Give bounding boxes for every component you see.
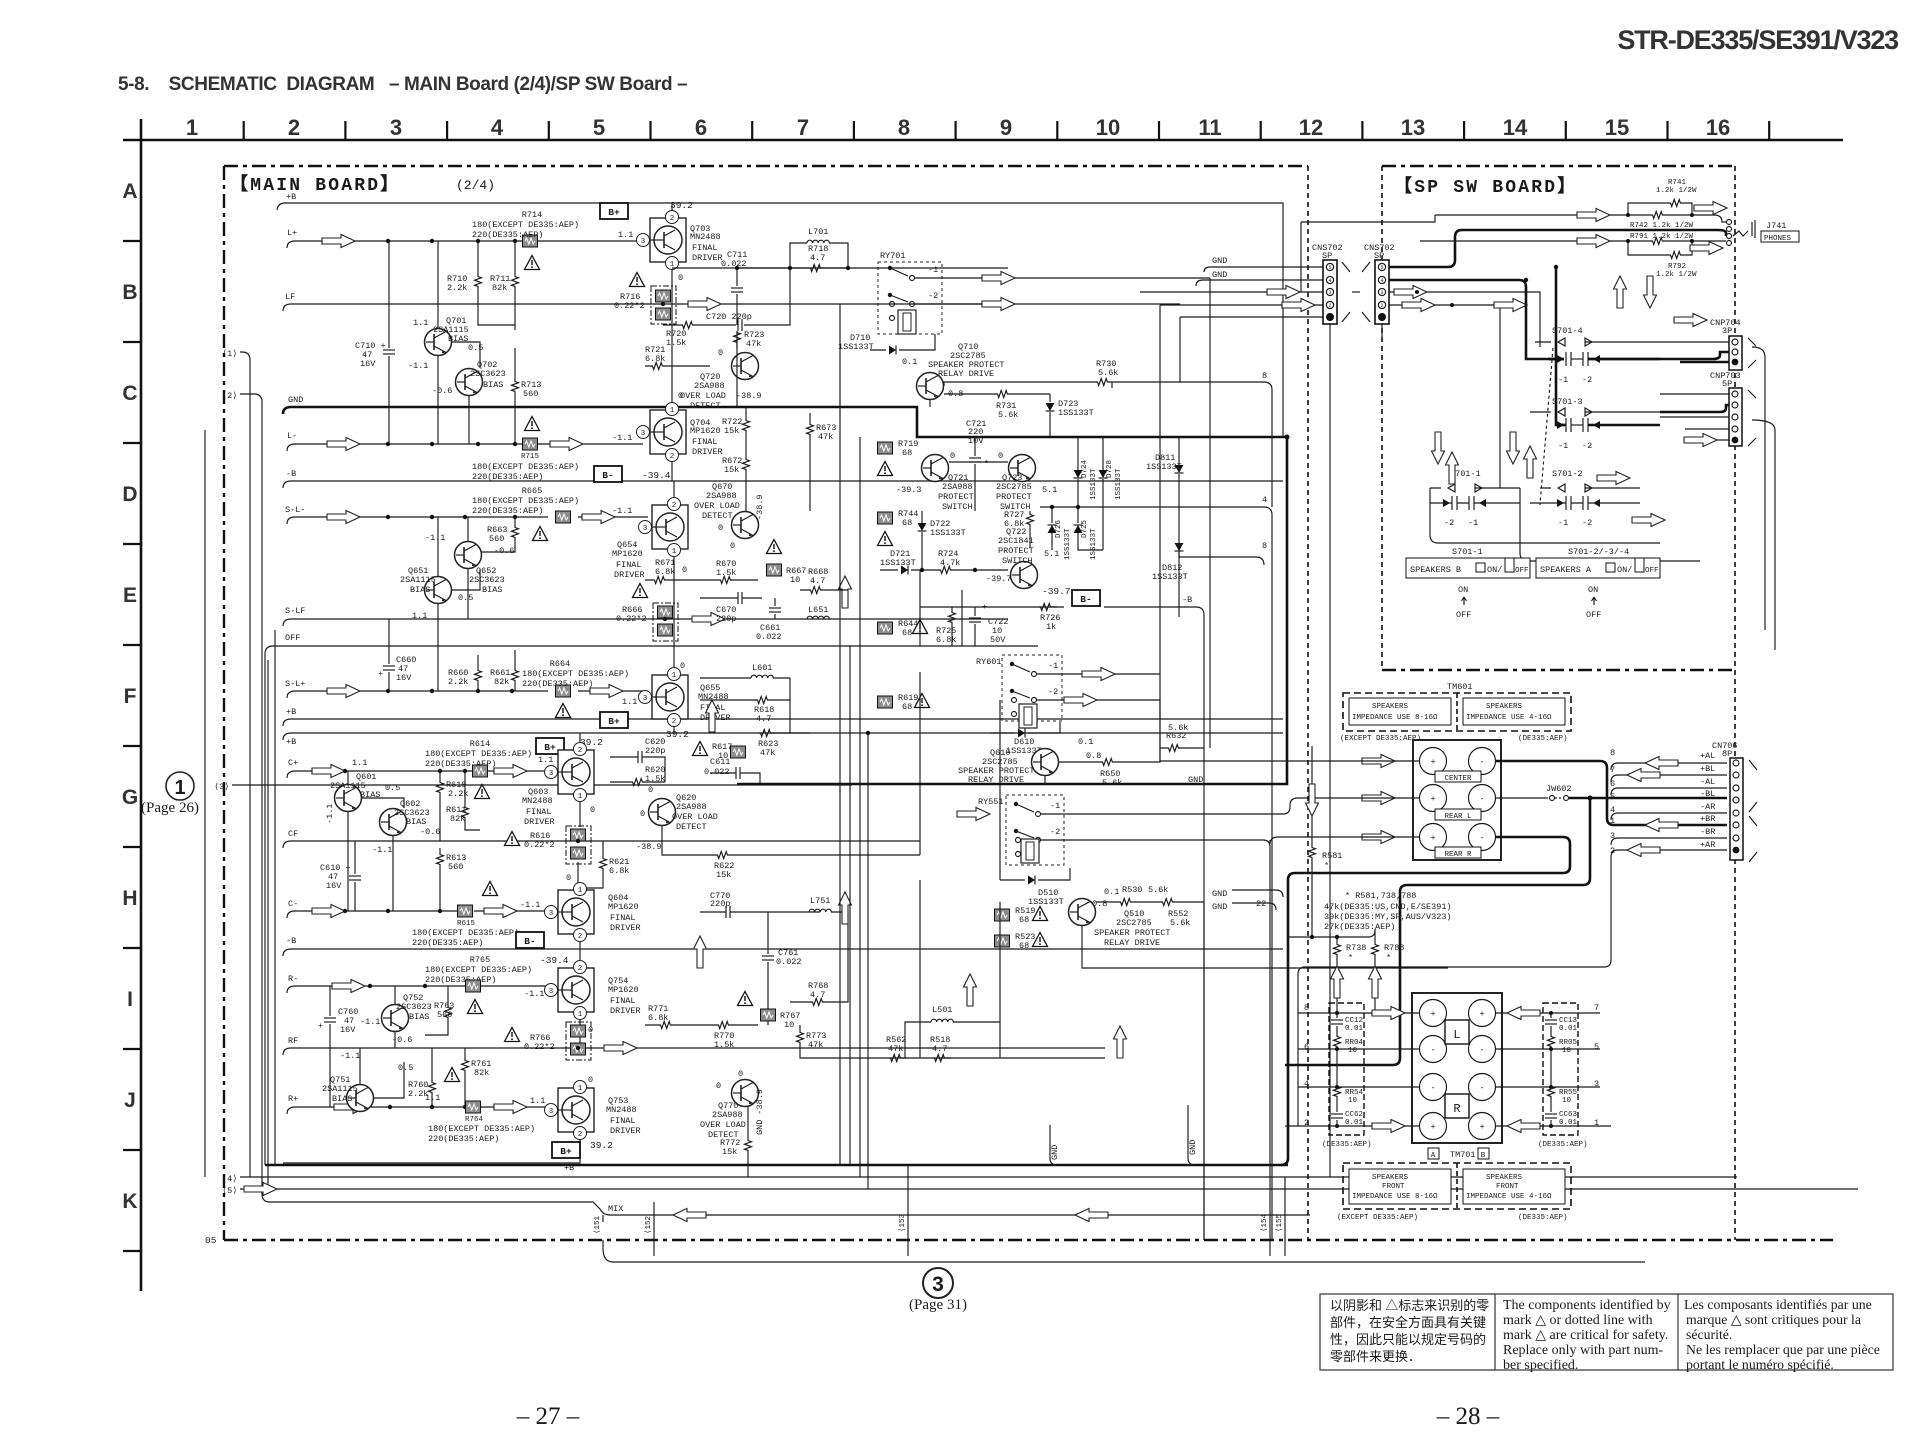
arrow phones B2 (1690, 242, 1723, 255)
wire front rows right (1496, 1012, 1600, 1014)
wire to CNS702 pin3 (1140, 291, 1323, 293)
transistor Q721 protect switch (922, 455, 949, 482)
svg-text:GND: GND (288, 395, 303, 405)
svg-text:DRIVER: DRIVER (610, 923, 641, 933)
svg-text:1: 1 (174, 777, 185, 799)
capacitor C611 (736, 767, 740, 779)
svg-text:68: 68 (902, 702, 912, 712)
svg-text:560: 560 (523, 389, 538, 399)
node L- junctions (386, 442, 517, 446)
svg-text:【SP SW BOARD】: 【SP SW BOARD】 (1394, 176, 1577, 198)
svg-text:OVER LOAD: OVER LOAD (680, 391, 726, 401)
svg-text:MP1620: MP1620 (608, 985, 639, 995)
svg-text:82k: 82k (450, 814, 465, 824)
resistor R623 (759, 730, 777, 737)
arrow RY701 out2 (982, 298, 1015, 311)
svg-text:R581: R581 (1322, 851, 1342, 861)
svg-text:4.7: 4.7 (810, 253, 825, 263)
svg-text:GND: GND (1050, 1145, 1060, 1160)
wire rear feeds (1160, 674, 1419, 761)
svg-text:L501: L501 (932, 1005, 952, 1015)
svg-text:9: 9 (1000, 115, 1012, 140)
svg-text:TM701: TM701 (1450, 1150, 1476, 1160)
resistor R716 fusible pair (651, 286, 676, 324)
svg-text:S-L-: S-L- (285, 505, 305, 515)
svg-text:-B: -B (286, 936, 296, 946)
wire right col a (1752, 347, 1765, 630)
arrow R+ mid (494, 1101, 527, 1114)
svg-text:47k: 47k (808, 1040, 823, 1050)
footer french text (1684, 1297, 1880, 1372)
svg-text:-0.6: -0.6 (420, 827, 440, 837)
svg-text:0.5: 0.5 (398, 1063, 413, 1073)
capacitor C620 (638, 751, 642, 763)
svg-text:GND: GND (1188, 1140, 1198, 1155)
svg-text:10V: 10V (968, 436, 984, 446)
svg-text:0: 0 (680, 661, 685, 671)
arrow front d (1507, 1120, 1540, 1133)
main board border left (223, 166, 225, 1240)
wire mid vertical h (999, 700, 1001, 880)
diode D724 (1074, 470, 1083, 478)
warn triangle R523 (1033, 933, 1048, 947)
resistor R610 (437, 781, 444, 799)
svg-text:S701-1: S701-1 (1452, 547, 1483, 557)
arrow up mid4 (964, 974, 977, 1006)
label B box (1478, 1148, 1489, 1159)
wire -BL thick (1569, 797, 1727, 800)
arrow cnp704 (1674, 314, 1707, 327)
resistor R726 (1039, 604, 1057, 611)
svg-text:2SC2785: 2SC2785 (996, 482, 1032, 492)
svg-text:D724: D724 (1081, 459, 1089, 478)
wire sp feed 2 (1389, 304, 1412, 306)
wire mid right vertical3 (1209, 278, 1211, 748)
wire Q754 collector (579, 949, 581, 960)
svg-text:-0.6: -0.6 (494, 546, 514, 556)
svg-text:-39.7: -39.7 (1042, 586, 1071, 597)
wire mid vertical c (859, 437, 861, 1177)
svg-text:R738: R738 (1346, 943, 1366, 953)
svg-text:性，因此只能以规定号码的: 性，因此只能以规定号码的 (1330, 1332, 1486, 1347)
transistor Q751 bias (347, 1085, 374, 1112)
svg-text:JW602: JW602 (1546, 784, 1572, 794)
node R- junctions (368, 984, 427, 988)
wire Q754 emitter (579, 1020, 581, 1048)
transistor Q701 bias (425, 329, 452, 356)
svg-text:220(DE335:AEP): 220(DE335:AEP) (472, 472, 543, 482)
svg-text:+: + (1430, 833, 1435, 843)
svg-text:15k: 15k (724, 426, 739, 436)
svg-text:R664: R664 (550, 659, 570, 669)
svg-text:10: 10 (1348, 1097, 1358, 1105)
wire Q721-Q723 (949, 461, 1008, 463)
jack J741 (1727, 220, 1732, 246)
dashed comp box front left (1329, 1003, 1364, 1135)
svg-text:FINAL: FINAL (526, 807, 552, 817)
svg-text:OFF: OFF (1456, 610, 1471, 620)
svg-text:SPEAKERS: SPEAKERS (1486, 1174, 1523, 1182)
svg-text:0.01: 0.01 (1345, 1119, 1364, 1127)
svg-text:-1.1: -1.1 (372, 845, 392, 855)
svg-text:RR54: RR54 (1345, 1089, 1364, 1097)
wire to CNS702 pin5 (1204, 267, 1323, 272)
svg-text:5-8. SCHEMATIC DIAGRAM –: 5-8. SCHEMATIC DIAGRAM – MAIN Board (2/4… (118, 74, 687, 95)
svg-text:RR04: RR04 (1345, 1039, 1364, 1047)
svg-text:50V: 50V (990, 635, 1006, 645)
wire from chevron 2 (240, 394, 600, 1209)
svg-text:Ne les remplacer que par une p: Ne les remplacer que par une pièce (1686, 1342, 1880, 1357)
transistor Q770 overload detect (732, 1080, 759, 1107)
svg-text:6.8k: 6.8k (936, 635, 956, 645)
svg-text:0.22*2: 0.22*2 (614, 301, 645, 311)
svg-text:RR55: RR55 (1559, 1089, 1578, 1097)
svg-text:S701-2: S701-2 (1552, 469, 1583, 479)
svg-text:R530: R530 (1122, 885, 1142, 895)
resistor R660 (475, 669, 482, 687)
svg-text:SPEAKERS: SPEAKERS (1372, 703, 1409, 711)
wire center minus thick (1496, 761, 1727, 825)
svg-text:sécurité.: sécurité. (1686, 1327, 1732, 1342)
resistor R665 fusible (556, 511, 571, 523)
svg-text:S701-3: S701-3 (1552, 397, 1583, 407)
arrow cn706 c (1645, 819, 1678, 832)
label B+ box SL (600, 712, 628, 728)
arrow cns3 (1267, 286, 1300, 299)
svg-text:MP1620: MP1620 (690, 426, 721, 436)
relay RY701 coil (898, 310, 916, 334)
svg-text:11: 11 (1198, 115, 1221, 140)
capacitor C770 (726, 906, 730, 918)
arrow sw down1 (1432, 432, 1445, 464)
resistor R663 (512, 526, 519, 544)
resistor R673 (807, 423, 814, 441)
relay RY601 coil (1019, 704, 1037, 728)
transistor Q510 relay drive (1069, 899, 1096, 926)
svg-text:220(DE335:AEP): 220(DE335:AEP) (472, 230, 543, 240)
arrow sp feed3 (1394, 286, 1427, 299)
svg-text:-1: -1 (928, 265, 938, 275)
svg-text:I: I (127, 988, 133, 1011)
svg-text:PROTECT: PROTECT (998, 546, 1034, 556)
wire cnp704 rows (1660, 341, 1729, 343)
svg-text:SPEAKER PROTECT: SPEAKER PROTECT (1094, 928, 1171, 938)
transistor Q710 relay drive (917, 373, 944, 400)
svg-text:1: 1 (578, 1085, 583, 1093)
board bottom border (224, 1239, 1833, 1241)
svg-text:5.6k: 5.6k (998, 410, 1018, 420)
transistor Q702 bias (456, 369, 483, 396)
resistor R792 loop (1628, 241, 1692, 255)
svg-text:⟨151: ⟨151 (593, 1215, 602, 1234)
arrow R- (332, 980, 365, 993)
wire RY601 outs (1037, 673, 1160, 675)
wire OFF bus (265, 646, 1038, 1165)
warn triangle R614 (475, 785, 490, 799)
svg-text:R615: R615 (457, 920, 476, 928)
svg-text:-1.1: -1.1 (408, 361, 428, 371)
diode D725 (1074, 525, 1083, 533)
svg-text:1k: 1k (1046, 622, 1056, 632)
svg-text:68: 68 (902, 628, 912, 638)
svg-text:0.022: 0.022 (776, 957, 802, 967)
svg-text:4.7k: 4.7k (940, 558, 960, 568)
svg-text:C+: C+ (288, 758, 298, 768)
wire -BL branch thick (1285, 798, 1590, 1065)
svg-text:OVER LOAD: OVER LOAD (700, 1120, 746, 1130)
resistor R672 (743, 458, 750, 476)
warn triangle R716 (630, 273, 645, 287)
svg-text:2.2k: 2.2k (447, 283, 467, 293)
wire Q703 emitter down (671, 270, 673, 366)
warn triangle R666 (633, 584, 648, 598)
wire sw out frame2 (1520, 488, 1700, 561)
svg-text:14: 14 (1503, 115, 1528, 140)
resistor R562 (889, 1055, 907, 1062)
svg-text:22: 22 (1256, 899, 1266, 909)
wire mid vertical j (919, 880, 921, 1058)
svg-text:RELAY DRIVE: RELAY DRIVE (968, 775, 1024, 785)
svg-text:2: 2 (578, 1131, 583, 1139)
resistor R518 (933, 1055, 951, 1062)
svg-text:4.7: 4.7 (756, 714, 771, 724)
svg-text:2SA988: 2SA988 (694, 381, 725, 391)
svg-text:16V: 16V (326, 881, 342, 891)
svg-text:BIAS: BIAS (410, 585, 430, 595)
wire RY551 outs (1041, 807, 1290, 814)
wire Q510 emitter down (1082, 926, 1448, 968)
svg-text:C-: C- (288, 899, 298, 909)
box speakers A (1536, 558, 1660, 578)
label L box (1445, 1020, 1469, 1044)
ruler column numbers (186, 115, 1730, 140)
svg-text:PHONES: PHONES (1764, 235, 1792, 243)
inductor L751 (809, 909, 831, 912)
arrow RY601 out2 (1064, 694, 1097, 707)
svg-text:DETECT: DETECT (690, 401, 721, 411)
resistor R613 (437, 853, 444, 871)
svg-text:OVER LOAD: OVER LOAD (672, 812, 718, 822)
svg-text:0.5: 0.5 (458, 593, 473, 603)
resistor R650 (1101, 759, 1119, 766)
relay RY601 (1002, 655, 1062, 721)
svg-text:– 28 –: – 28 – (1436, 1403, 1500, 1430)
svg-text:-AL: -AL (1700, 777, 1715, 787)
wire R616 down (577, 862, 579, 888)
svg-text:LF: LF (285, 292, 295, 302)
resistor R711 (512, 275, 519, 293)
svg-text:ON/: ON/ (1487, 565, 1502, 575)
warn triangle R617 (693, 742, 708, 756)
svg-text:0: 0 (718, 523, 723, 533)
svg-text:1.5k: 1.5k (666, 338, 686, 348)
svg-text:D728: D728 (1106, 460, 1114, 478)
node L+ junctions (386, 239, 517, 243)
wire left vertical pair a (267, 660, 269, 1189)
svg-text:-0.6: -0.6 (392, 1035, 412, 1045)
svg-text:R: R (1453, 1102, 1460, 1116)
resistor R667 fusible (767, 564, 782, 576)
arrow cnp703 (1684, 434, 1717, 447)
svg-text:220(DE335:AEP): 220(DE335:AEP) (522, 679, 593, 689)
capacitor CC13 (1545, 1020, 1557, 1024)
svg-text:MIX: MIX (608, 1204, 623, 1214)
arrow sw right1 (1597, 472, 1630, 485)
svg-text:R-: R- (288, 974, 298, 984)
transistor Q610 relay drive (1032, 749, 1059, 776)
transistor Q670 overload detect (732, 512, 759, 539)
svg-text:(EXCEPT DE335:AEP): (EXCEPT DE335:AEP) (1340, 735, 1421, 743)
svg-text:MP1620: MP1620 (608, 902, 639, 912)
wire phones A (1435, 214, 1628, 216)
svg-text:(DE335:AEP): (DE335:AEP) (1322, 1141, 1372, 1149)
node RF junction (576, 1046, 580, 1050)
transistor Q720 overload detect (732, 353, 759, 380)
svg-text:CENTER: CENTER (1444, 775, 1472, 783)
terminal block rear (1413, 740, 1501, 860)
wire S-L- bus (287, 517, 548, 524)
svg-text:3: 3 (549, 988, 554, 996)
wire sp thick feedB (1389, 280, 1564, 359)
svg-text:82k: 82k (494, 677, 509, 687)
svg-text:K: K (122, 1190, 137, 1213)
svg-text:B: B (1481, 1152, 1486, 1160)
resistor R581 (1309, 846, 1316, 864)
svg-text:DRIVER: DRIVER (524, 817, 555, 827)
svg-text:* R581,738,788: * R581,738,788 (1345, 891, 1416, 901)
box impedance front right (1463, 1169, 1565, 1204)
resistor R530 (1119, 899, 1137, 906)
svg-text:ON: ON (1588, 585, 1598, 595)
resistor R664 fusible (556, 685, 571, 697)
wire -B bus row H (283, 949, 1283, 956)
svg-text:(EXCEPT DE335:AEP): (EXCEPT DE335:AEP) (1337, 1214, 1418, 1222)
arrow up chevron153 (1114, 1026, 1127, 1058)
arrow C- mid (484, 905, 517, 918)
footer english text (1503, 1298, 1671, 1373)
arrow phones A1 (1577, 209, 1610, 222)
svg-text:1: 1 (670, 407, 675, 415)
svg-text:L+: L+ (287, 228, 297, 238)
svg-text:A: A (122, 180, 137, 203)
svg-text:+BL: +BL (1700, 764, 1715, 774)
svg-text:IMPEDANCE USE 4-16Ω: IMPEDANCE USE 4-16Ω (1466, 714, 1552, 722)
svg-text:0: 0 (566, 873, 571, 883)
arrow front c (1507, 1007, 1540, 1020)
svg-text:BIAS: BIAS (332, 1094, 352, 1104)
circled ref 3 (923, 1268, 953, 1298)
label B+ box R (552, 1142, 580, 1158)
arrow sp feed2 (1402, 299, 1435, 312)
svg-text:68: 68 (1019, 915, 1029, 925)
svg-text:R715: R715 (521, 453, 540, 461)
wire S-LF bus (283, 619, 1008, 626)
svg-text:3: 3 (932, 1273, 944, 1296)
wire to CNS702 pin4 (1196, 280, 1323, 286)
wire -B bus row C (283, 481, 1283, 488)
svg-text:+: + (1430, 1009, 1435, 1019)
svg-text:-2: -2 (1582, 375, 1592, 385)
wire mid vertical g (961, 590, 963, 646)
resistor RR55 (1548, 1085, 1555, 1103)
warn triangle R665 (533, 527, 548, 541)
svg-text:+: + (1479, 1122, 1484, 1132)
svg-text:CC63: CC63 (1559, 1111, 1578, 1119)
wire Q654 emitter down (673, 557, 675, 619)
resistor R616 fusible pair (566, 826, 591, 864)
svg-text:*: * (1348, 953, 1353, 963)
chevron 152 (653, 1202, 655, 1256)
warn triangle R667 (767, 540, 782, 554)
transistor Q655 final driver (652, 675, 688, 719)
front routing frame (1298, 857, 1611, 1126)
svg-text:1.1: 1.1 (413, 318, 428, 328)
svg-text:R+: R+ (288, 1094, 298, 1104)
diode D510 (1028, 876, 1035, 885)
warn triangle R719 (878, 462, 893, 476)
capacitor C710 (383, 350, 395, 354)
svg-text:CC12: CC12 (1345, 1017, 1363, 1025)
svg-text:47k: 47k (760, 748, 775, 758)
svg-text:portant le numéro spécifié.: portant le numéro spécifié. (1686, 1357, 1834, 1372)
label REAR R (1435, 847, 1481, 858)
svg-text:8: 8 (1262, 541, 1267, 551)
wire sp feed 3 (1389, 292, 1540, 347)
wire CF bus (283, 841, 920, 848)
box impedance rear left (1349, 698, 1451, 725)
svg-text:+B: +B (286, 192, 296, 202)
resistor R671 (653, 577, 671, 584)
wire mid vertical e (919, 570, 921, 646)
arrow sw right2 (1632, 514, 1665, 527)
wire Q655 pins (673, 619, 675, 733)
arrow L- mid (550, 438, 583, 451)
arrow S-L- (327, 511, 360, 524)
resistor R730b wire 8 (1111, 382, 1113, 388)
resistor R761 (462, 1059, 469, 1077)
resistor R727 (1027, 513, 1034, 531)
diode D728 (1099, 470, 1108, 478)
svg-text:⟨155: ⟨155 (1275, 1213, 1284, 1232)
node mid d (866, 731, 870, 735)
svg-text:-39.3: -39.3 (896, 485, 922, 495)
wire chevron5 bus (240, 1188, 1858, 1190)
arrow cn706 b (1627, 769, 1660, 782)
svg-text:B+: B+ (560, 1146, 572, 1157)
arrow cn706 a (1645, 757, 1678, 770)
svg-text:10: 10 (1562, 1097, 1572, 1105)
net labels CN706 (1700, 751, 1715, 850)
svg-text:D725: D725 (1081, 519, 1089, 538)
diode D721 (901, 566, 908, 575)
resistor R632 (1167, 745, 1185, 752)
warn triangle R664 (556, 704, 571, 718)
wire mid vertical i (999, 902, 1001, 1022)
svg-text:3: 3 (1328, 290, 1331, 296)
svg-text:2: 2 (670, 453, 675, 461)
svg-text:220(DE335:AEP): 220(DE335:AEP) (428, 1134, 499, 1144)
wire C+ bus (287, 771, 472, 778)
transistor Q601 bias (335, 785, 362, 812)
svg-text:GND -38.9: GND -38.9 (755, 1089, 765, 1135)
svg-text:SWITCH: SWITCH (1002, 556, 1033, 566)
svg-text:R791 1.2k 1/2W: R791 1.2k 1/2W (1630, 233, 1694, 241)
transistor Q652 bias (455, 542, 482, 569)
svg-text:1SS133T: 1SS133T (1090, 468, 1098, 500)
svg-text:1SS133T: 1SS133T (1152, 572, 1188, 582)
arrow front a (1372, 1007, 1405, 1020)
transistor Q753 final driver (558, 1088, 594, 1132)
